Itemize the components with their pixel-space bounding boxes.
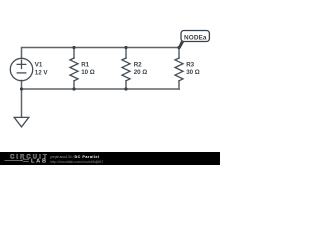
svg-text:http://circuitlab.com/c/cvb45d: http://circuitlab.com/c/cvb45dj967 [50, 160, 103, 164]
svg-text:R3: R3 [186, 61, 194, 68]
svg-text:V1: V1 [35, 62, 43, 69]
svg-text:R1: R1 [81, 61, 89, 68]
svg-text:10 Ω: 10 Ω [81, 69, 95, 76]
svg-text:12 V: 12 V [35, 69, 49, 76]
svg-text:DC Parallel: DC Parallel [75, 155, 100, 159]
svg-text:30 Ω: 30 Ω [186, 69, 200, 76]
svg-text:joeytrusso134 /: joeytrusso134 / [49, 155, 74, 159]
svg-text:LAB: LAB [31, 158, 46, 164]
svg-text:R2: R2 [134, 61, 142, 68]
svg-text:20 Ω: 20 Ω [134, 69, 148, 76]
svg-text:NODEa: NODEa [184, 34, 207, 41]
